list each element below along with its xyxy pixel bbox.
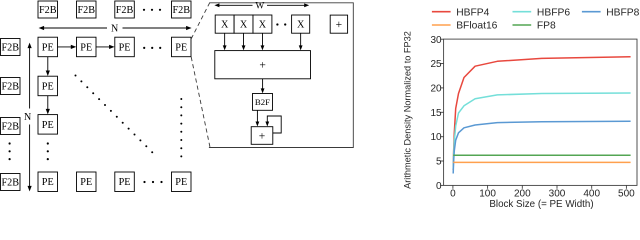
svg-text:X: X xyxy=(259,20,267,31)
multiplier X3 xyxy=(253,15,272,33)
svg-text:5: 5 xyxy=(436,157,442,168)
wire multiplier 2 to adder tree xyxy=(242,33,246,50)
svg-text:PE: PE xyxy=(42,81,54,92)
svg-text:X: X xyxy=(240,20,248,31)
block F2B top 3 xyxy=(115,1,135,18)
svg-text:0: 0 xyxy=(450,189,456,200)
chart axes spines xyxy=(444,39,637,185)
legend xyxy=(432,7,640,31)
wire B2F to accumulator xyxy=(256,110,260,126)
svg-text:N: N xyxy=(111,24,118,35)
processing element PE row4 col4 xyxy=(172,172,192,192)
zoom lens dashed line top xyxy=(191,3,209,39)
svg-text:PE: PE xyxy=(80,42,92,53)
svg-text:PE: PE xyxy=(80,177,92,188)
svg-text:F2B: F2B xyxy=(1,42,19,53)
feedback wire accumulator loop xyxy=(265,116,281,133)
svg-text:F2B: F2B xyxy=(1,81,19,92)
svg-text:+: + xyxy=(259,130,266,142)
block F2B left 3 xyxy=(1,118,21,135)
processing element PE row1 col4 xyxy=(172,37,192,57)
svg-text:PE: PE xyxy=(42,120,54,131)
processing element PE row1 col2 xyxy=(77,37,97,57)
svg-text:HBFP8: HBFP8 xyxy=(606,7,639,18)
zoom lens dashed line bottom xyxy=(191,57,210,147)
svg-text:Block Size (= PE Width): Block Size (= PE Width) xyxy=(489,199,593,210)
svg-text:F2B: F2B xyxy=(1,177,19,188)
svg-text:Arithmetic Density Normalized: Arithmetic Density Normalized to FP32 xyxy=(402,31,412,189)
block F2B top 4 xyxy=(172,1,192,18)
svg-text:F2B: F2B xyxy=(77,5,95,16)
svg-text:X: X xyxy=(297,20,305,31)
svg-text:F2B: F2B xyxy=(39,5,57,16)
svg-text:F2B: F2B xyxy=(172,5,190,16)
ellipsis left F2B column xyxy=(9,142,11,160)
svg-text:HBFP6: HBFP6 xyxy=(537,7,570,18)
svg-text:PE: PE xyxy=(42,42,54,53)
svg-text:PE: PE xyxy=(119,177,131,188)
svg-text:+: + xyxy=(336,19,343,31)
svg-text:X: X xyxy=(221,20,229,31)
processing element PE row1 col3 xyxy=(115,37,135,57)
dimension arrow N (columns) xyxy=(39,24,192,35)
multiplier Xw xyxy=(292,15,310,33)
dimension arrow W (PE width) xyxy=(214,2,309,12)
curve HBFP8 (blue) xyxy=(453,121,630,173)
block F2B left 4 xyxy=(1,174,21,191)
svg-text:HBFP4: HBFP4 xyxy=(456,7,489,18)
processing element PE row4 col3 xyxy=(115,172,135,192)
x axis ticks and labels xyxy=(450,185,635,199)
svg-text:100: 100 xyxy=(479,189,496,200)
processing element PE row4 col1 xyxy=(38,172,58,192)
svg-text:B2F: B2F xyxy=(255,97,270,107)
curve BFloat16 (orange) xyxy=(453,161,630,163)
svg-text:+: + xyxy=(259,60,266,72)
svg-text:500: 500 xyxy=(618,189,635,200)
processing element PE row2 col1 xyxy=(38,76,58,96)
wire multiplier 3 to adder tree xyxy=(261,33,265,50)
curve HBFP4 (red) xyxy=(453,57,630,170)
ellipsis PE row1 xyxy=(143,47,161,49)
svg-text:PE: PE xyxy=(175,42,187,53)
wire multiplier 4 to adder tree xyxy=(299,33,303,50)
svg-text:N: N xyxy=(24,112,31,123)
dimension arrow N (rows) xyxy=(24,43,32,192)
block F2B left 2 xyxy=(1,78,21,95)
svg-text:F2B: F2B xyxy=(1,121,19,132)
svg-text:PE: PE xyxy=(175,177,187,188)
PE detail enclosure box xyxy=(209,3,353,148)
wire PE2 to PE3 row1 xyxy=(96,45,115,49)
wire PE row1 to row2 col1 xyxy=(46,57,50,76)
wire PE1 to PE2 row1 xyxy=(58,45,77,49)
svg-text:30: 30 xyxy=(430,35,442,46)
wire multiplier 1 to adder tree xyxy=(223,33,227,50)
curve FP8 (green) xyxy=(453,154,630,156)
processing element PE row4 col2 xyxy=(77,172,97,192)
svg-text:F2B: F2B xyxy=(116,5,134,16)
diagonal ellipsis of PE array xyxy=(75,75,154,154)
svg-text:20: 20 xyxy=(430,84,442,95)
block F2B top 1 xyxy=(38,1,58,18)
svg-text:400: 400 xyxy=(583,189,600,200)
converter B2F xyxy=(253,94,273,111)
svg-text:25: 25 xyxy=(430,59,442,70)
adder tree U+ xyxy=(215,51,311,79)
svg-text:200: 200 xyxy=(514,189,531,200)
ellipsis PE row4 xyxy=(143,181,162,183)
svg-text:15: 15 xyxy=(430,108,442,119)
svg-text:FP8: FP8 xyxy=(537,21,556,32)
svg-text:PE: PE xyxy=(119,42,131,53)
ellipsis top F2B row xyxy=(143,9,161,11)
svg-text:300: 300 xyxy=(549,189,566,200)
svg-text:10: 10 xyxy=(430,132,442,143)
svg-text:PE: PE xyxy=(42,177,54,188)
exponent adder xyxy=(330,15,347,33)
y axis ticks and labels xyxy=(430,35,443,192)
processing element PE row3 col1 xyxy=(38,115,58,135)
block F2B top 2 xyxy=(77,1,97,18)
wire PE row2 to row3 col1 xyxy=(46,96,50,115)
ellipsis multipliers xyxy=(276,23,286,25)
svg-text:BFloat16: BFloat16 xyxy=(456,21,497,32)
wire adder tree to B2F xyxy=(261,79,265,94)
svg-text:W: W xyxy=(255,2,264,12)
svg-text:0: 0 xyxy=(436,181,442,192)
curve HBFP6 (cyan) xyxy=(453,93,630,169)
processing element PE row1 col1 xyxy=(38,37,58,57)
accumulator adder xyxy=(251,127,273,145)
multiplier X1 xyxy=(215,15,234,33)
ellipsis PE col4 xyxy=(180,98,182,157)
block F2B left 1 xyxy=(1,39,21,56)
ellipsis PE col1 xyxy=(47,142,49,160)
multiplier X2 xyxy=(234,15,253,33)
